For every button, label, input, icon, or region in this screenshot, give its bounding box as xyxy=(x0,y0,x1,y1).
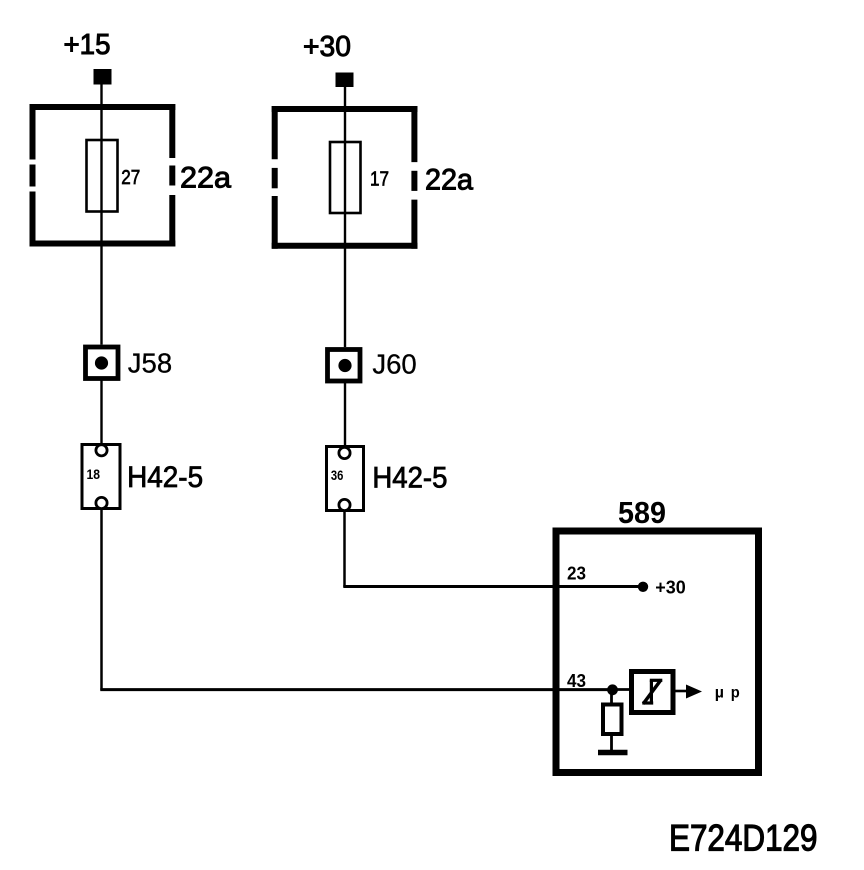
wire to pin 43 xyxy=(100,688,612,691)
svg-text:p: p xyxy=(731,685,740,702)
arrow to microprocessor xyxy=(686,685,702,699)
wire H42-5 (right) down xyxy=(343,511,346,588)
wire J58 to H42-5 (left) xyxy=(100,378,102,447)
fuse holder box 22a (left) dashed border xyxy=(30,104,176,247)
connector J60 xyxy=(328,350,361,382)
svg-text:22a: 22a xyxy=(180,162,232,195)
svg-text:µ: µ xyxy=(715,685,724,702)
svg-text:27: 27 xyxy=(121,167,140,189)
wire junction to resistor xyxy=(610,690,613,707)
svg-text:43: 43 xyxy=(567,671,586,691)
connector H42-5 (left) xyxy=(82,445,120,509)
svg-text:H42-5: H42-5 xyxy=(127,461,203,494)
svg-text:+15: +15 xyxy=(64,29,111,61)
svg-text:H42-5: H42-5 xyxy=(372,462,447,495)
wire H42-5 (left) down xyxy=(100,509,103,691)
resistor xyxy=(603,705,622,735)
svg-text:589: 589 xyxy=(618,495,666,530)
wire through left fuse box xyxy=(100,107,102,345)
connector J58 xyxy=(86,347,119,379)
wire terminal +15 to fusebox xyxy=(100,84,102,107)
svg-text:+30: +30 xyxy=(655,578,686,598)
svg-text:J58: J58 xyxy=(128,348,172,379)
terminal +30 xyxy=(336,73,354,88)
threshold symbol xyxy=(642,680,662,704)
control unit 589 box xyxy=(556,531,759,773)
terminal +15 xyxy=(94,69,112,85)
wire junction to threshold box xyxy=(612,688,632,691)
junction node pin 43 xyxy=(607,684,618,695)
wire resistor to ground xyxy=(610,734,613,751)
wire through right fuse box xyxy=(344,108,346,347)
threshold switch box xyxy=(632,672,674,713)
node +30 dot xyxy=(638,582,648,592)
wire J60 to H42-5 (right) xyxy=(344,381,346,450)
svg-text:36: 36 xyxy=(331,467,344,483)
ground xyxy=(598,750,628,756)
connector H42-5 (right) xyxy=(327,447,364,511)
svg-text:17: 17 xyxy=(370,168,389,190)
svg-text:18: 18 xyxy=(87,466,101,482)
wire to pin 23 xyxy=(343,585,643,588)
svg-text:+30: +30 xyxy=(303,31,351,63)
svg-text:22a: 22a xyxy=(425,164,474,197)
svg-text:J60: J60 xyxy=(372,349,416,380)
fuse 17 body xyxy=(330,142,361,213)
svg-text:E724D129: E724D129 xyxy=(669,818,818,859)
svg-text:23: 23 xyxy=(567,564,586,584)
fuse 27 body xyxy=(87,140,118,212)
wire threshold box to arrow xyxy=(675,690,688,693)
wire terminal +30 to fusebox xyxy=(344,86,346,108)
fuse holder box 22a (right) dashed border xyxy=(272,106,418,249)
